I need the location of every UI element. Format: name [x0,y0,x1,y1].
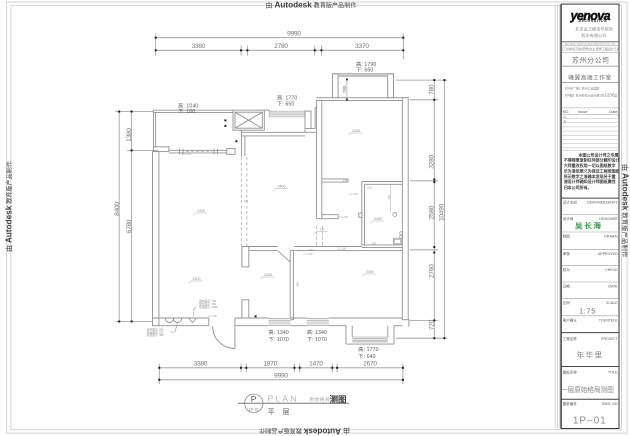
svg-text:2400: 2400 [264,273,272,277]
hall bottom wall [322,214,338,216]
bedroom1 bottom wall [322,178,348,180]
bedroom1 bay window band [338,74,388,77]
svg-text:DRAWN: DRAWN [604,234,618,238]
stub wall right of shaft [264,109,269,111]
footer title line [238,402,349,404]
bottom window 2 [307,319,329,326]
svg-text:240: 240 [372,241,377,245]
svg-text:TLIENTELE: TLIENTELE [599,318,618,322]
dimension texts [114,30,446,379]
svg-text:所示数字之准确本发现另于重: 所示数字之准确本发现另于重 [563,173,616,179]
svg-text:C.L 280: C.L 280 [304,252,314,256]
svg-text:不得随意复制任何部分翻印设计: 不得随意复制任何部分翻印设计 [564,157,620,163]
svg-text:C.L 200: C.L 200 [208,314,218,318]
bath1 left pier lower [242,300,249,318]
bedroom1 bay pier left [333,74,339,98]
svg-text:1P–01: 1P–01 [573,416,607,427]
svg-text:测图: 测图 [330,394,347,404]
svg-text:比例: 比例 [563,300,571,305]
svg-text:下: 640: 下: 640 [358,353,375,360]
dimension ticks [118,37,445,381]
svg-text:3370: 3370 [355,43,369,50]
entry niche walls [314,108,316,129]
svg-text:3360: 3360 [192,43,206,50]
dashed glazing line balcony window [186,151,212,153]
right dim line segments [433,80,435,338]
shaft box (flue) [233,110,264,130]
watermark left (rotated -90) [5,161,14,252]
bathroom2 basin double rect [394,238,402,244]
bottom dim line 9990 [159,379,403,381]
svg-text:示为准依照义为保证工程按图纸: 示为准依照义为保证工程按图纸 [564,167,620,173]
slot bottom closure [311,128,315,130]
svg-text:CHECK: CHECK [605,268,618,272]
top window band [269,111,305,117]
watermark right (rotated 90) [621,164,630,258]
window height labels 高/下 [178,60,379,360]
svg-text:TITLE: TITLE [608,371,618,375]
bath1 left wall upper [242,247,249,267]
drawing area separator double line [554,6,556,430]
svg-text:下: 100: 下: 100 [178,108,195,115]
svg-text:240: 240 [320,228,325,232]
bedroom2 north wall west part [242,246,278,248]
balcony top wall [154,109,234,111]
svg-text:2400: 2400 [193,277,201,281]
svg-text:240: 240 [244,199,249,203]
svg-text:2670: 2670 [363,360,377,367]
svg-text:2400: 2400 [278,185,286,189]
svg-text:一层原始格局测图: 一层原始格局测图 [561,385,614,394]
window arc marks in west wall [166,319,174,323]
svg-text:3280: 3280 [429,154,436,168]
svg-text:由 Autodesk 教育版产品制作: 由 Autodesk 教育版产品制作 [621,164,630,258]
dashed beam balcony-living [186,152,323,246]
svg-text:【中环广场】苏州工业园区: 【中环广场】苏州工业园区 [564,86,600,91]
svg-text:平 层: 平 层 [268,408,293,416]
svg-text:工程名称: 工程名称 [563,336,577,341]
svg-text:校对: 校对 [563,267,571,272]
bathroom2 left wall [361,182,363,245]
underlines for 2400 labels [189,133,385,284]
svg-text:2760: 2760 [429,264,436,278]
svg-text:8400: 8400 [114,202,121,216]
bedroom2 left wall [290,250,293,319]
svg-text:2400: 2400 [366,270,374,274]
bedroom1 bay pier right [388,74,394,98]
svg-text:1380: 1380 [126,128,133,142]
svg-text:高: 1770: 高: 1770 [277,93,297,101]
right extension lines [396,79,448,81]
bottom bay window walls [345,326,347,344]
svg-text:10490: 10490 [439,203,446,221]
top dim line segments [156,49,404,51]
beam width labels 240 [244,178,377,286]
svg-text:下: 650: 下: 650 [277,101,294,108]
svg-text:900: 900 [387,194,391,199]
top extension lines [155,34,157,56]
svg-text:设计主创: 设计主创 [563,200,577,205]
copyright paragraph box line [561,150,619,152]
bottom wall west segment [153,317,209,319]
title block border [561,4,619,428]
svg-text:Date: Date [609,109,617,114]
balcony left wall upper [153,110,155,147]
bathroom2 bottom wall [362,244,403,246]
bathroom2 fixtures two circles [400,232,403,235]
tiny 3-line window labels left [147,299,218,337]
balcony window corner piece [227,149,235,155]
bathroom2 pipe bump [359,213,362,217]
shaft X diagonals [235,112,262,128]
svg-text:BEI JING YENOVA DECORATION CO.: BEI JING YENOVA DECORATION CO.,LTD [565,42,616,46]
balcony bottom window wall [169,149,228,151]
bottom dim line segments [159,367,403,369]
bedroom2 north wall east part [294,246,362,248]
svg-text:2780: 2780 [274,43,288,50]
right exterior wall [402,98,408,320]
svg-text:下: 650: 下: 650 [356,67,373,74]
black dots [224,119,226,121]
svg-text:C.L 200: C.L 200 [349,192,359,196]
footer symbol circle [245,394,263,412]
svg-text:年华里: 年华里 [577,350,604,360]
top dim line 9990 [156,37,404,39]
svg-text:DATE: DATE [608,285,618,289]
door leaf bath1 [278,251,293,264]
svg-text:2400: 2400 [197,209,205,213]
bedroom1 / hall left wall [317,100,322,218]
svg-text:1P–01: 1P–01 [249,407,259,411]
svg-text:施工总承包贰级(装饰)企业 装饰工程设计乙级: 施工总承包贰级(装饰)企业 装饰工程设计乙级 [560,46,620,51]
left dim line 1380/6780 [131,112,133,322]
svg-text:DECORATION: DECORATION [579,19,608,23]
left dim line 8400 [118,112,120,322]
svg-text:股份有限公司: 股份有限公司 [581,32,606,39]
svg-text:180: 180 [367,186,372,190]
bottom extension lines [158,364,160,385]
svg-text:峰翼高端工作室: 峰翼高端工作室 [568,73,611,81]
svg-text:1470: 1470 [309,360,323,367]
svg-text:下: 1070: 下: 1070 [269,336,289,343]
svg-text:240: 240 [343,178,348,182]
copyright paragraph [563,151,620,190]
svg-text:DESIGNER&SHOT: DESIGNER&SHOT [587,201,618,205]
bottom window 1 [269,319,291,326]
svg-text:780: 780 [429,84,436,95]
left exterior wall lower [153,152,159,326]
svg-text:高: 1770: 高: 1770 [358,345,378,353]
interior dim 780 bedroom1 [346,79,348,100]
svg-text:Issue: Issue [578,109,587,114]
svg-text:240: 240 [296,282,300,287]
entry top wall band [242,131,306,133]
right dim line 10490 [443,80,445,338]
svg-text:图纸名称: 图纸名称 [563,370,577,375]
bathroom2 floor drain circle [393,213,397,217]
pier left edge extension [304,129,306,133]
svg-text:下: 1070: 下: 1070 [307,336,327,343]
leader lines for tiny labels [171,307,197,333]
svg-text:1:75: 1:75 [579,309,596,316]
svg-text:审核: 审核 [563,251,571,256]
bathroom2 top wall [362,181,403,183]
svg-text:6780: 6780 [126,219,133,233]
svg-text:720: 720 [429,319,436,330]
bottom wall between windows [291,317,307,319]
svg-text:9990: 9990 [274,372,288,379]
svg-text:APPROVED: APPROVED [598,252,618,256]
svg-text:归本公司所有。: 归本公司所有。 [564,184,592,190]
bathroom2 interior divider [389,184,391,213]
divider wall below shaft [241,130,243,156]
svg-text:P: P [251,394,257,404]
svg-text:2400: 2400 [374,217,382,221]
ceiling line labels C.L [182,152,372,318]
dashed beam hall-bath1 [316,226,318,246]
svg-text:图纸编号: 图纸编号 [563,401,577,406]
entry door leaf and swing [234,326,236,349]
svg-text:C.L 280: C.L 280 [337,247,347,251]
watermark bottom (rotated 180) [259,427,350,436]
svg-text:苏州分公司: 苏州分公司 [572,56,610,65]
room height labels 2400 [193,129,383,281]
svg-text:2580: 2580 [429,205,436,219]
svg-text:高: 1340: 高: 1340 [307,328,327,336]
bottom wall east of window2 [329,317,403,319]
svg-text:2400: 2400 [352,129,360,133]
bottom wall mid segment [235,317,269,319]
svg-text:C.L 200: C.L 200 [182,152,192,156]
svg-text:原始格局: 原始格局 [310,396,331,403]
svg-text:日期: 日期 [563,284,571,289]
svg-text:PROJECT: PROJECT [601,337,618,341]
left wall jog pier [154,147,169,152]
svg-text:DWG. NO: DWG. NO [602,402,618,406]
svg-text:客户确认: 客户确认 [563,317,577,322]
svg-text:1870: 1870 [263,360,277,367]
svg-text:大师重改权用一切以图纸数字: 大师重改权用一切以图纸数字 [564,162,616,168]
svg-text:【中银】苏州现代大道大厦1号1206室: 【中银】苏州现代大道大厦1号1206室 [564,93,618,98]
svg-text:高: 1340: 高: 1340 [269,328,289,336]
left extension lines [115,111,154,113]
svg-text:780: 780 [342,85,348,93]
svg-text:吴长海: 吴长海 [575,220,603,231]
svg-text:窗顶面高: 1495: 窗顶面高: 1495 [199,305,218,309]
svg-text:设计师: 设计师 [563,216,574,221]
pier right of top window [305,111,311,129]
svg-text:测设计师确知设计师图纸属性: 测设计师确知设计师图纸属性 [564,178,616,184]
svg-text:制图: 制图 [563,233,571,238]
svg-text:PLAN: PLAN [268,394,299,404]
bottom bay window band [352,337,388,342]
svg-text:SCALE: SCALE [606,301,618,305]
svg-text:240: 240 [308,248,313,252]
bedroom1 top wall [317,97,403,99]
svg-text:9990: 9990 [287,30,301,37]
svg-text:北京业之峰诺华装饰: 北京业之峰诺华装饰 [575,26,613,33]
svg-text:3380: 3380 [194,360,208,367]
right bottom corner jog [407,320,410,326]
svg-text:本图公司设计师之专属: 本图公司设计师之专属 [578,151,619,157]
svg-text:C.L 270: C.L 270 [339,215,349,219]
svg-text:窗顶面高: 480: 窗顶面高: 480 [147,333,164,337]
svg-text:NO.: NO. [563,109,570,114]
